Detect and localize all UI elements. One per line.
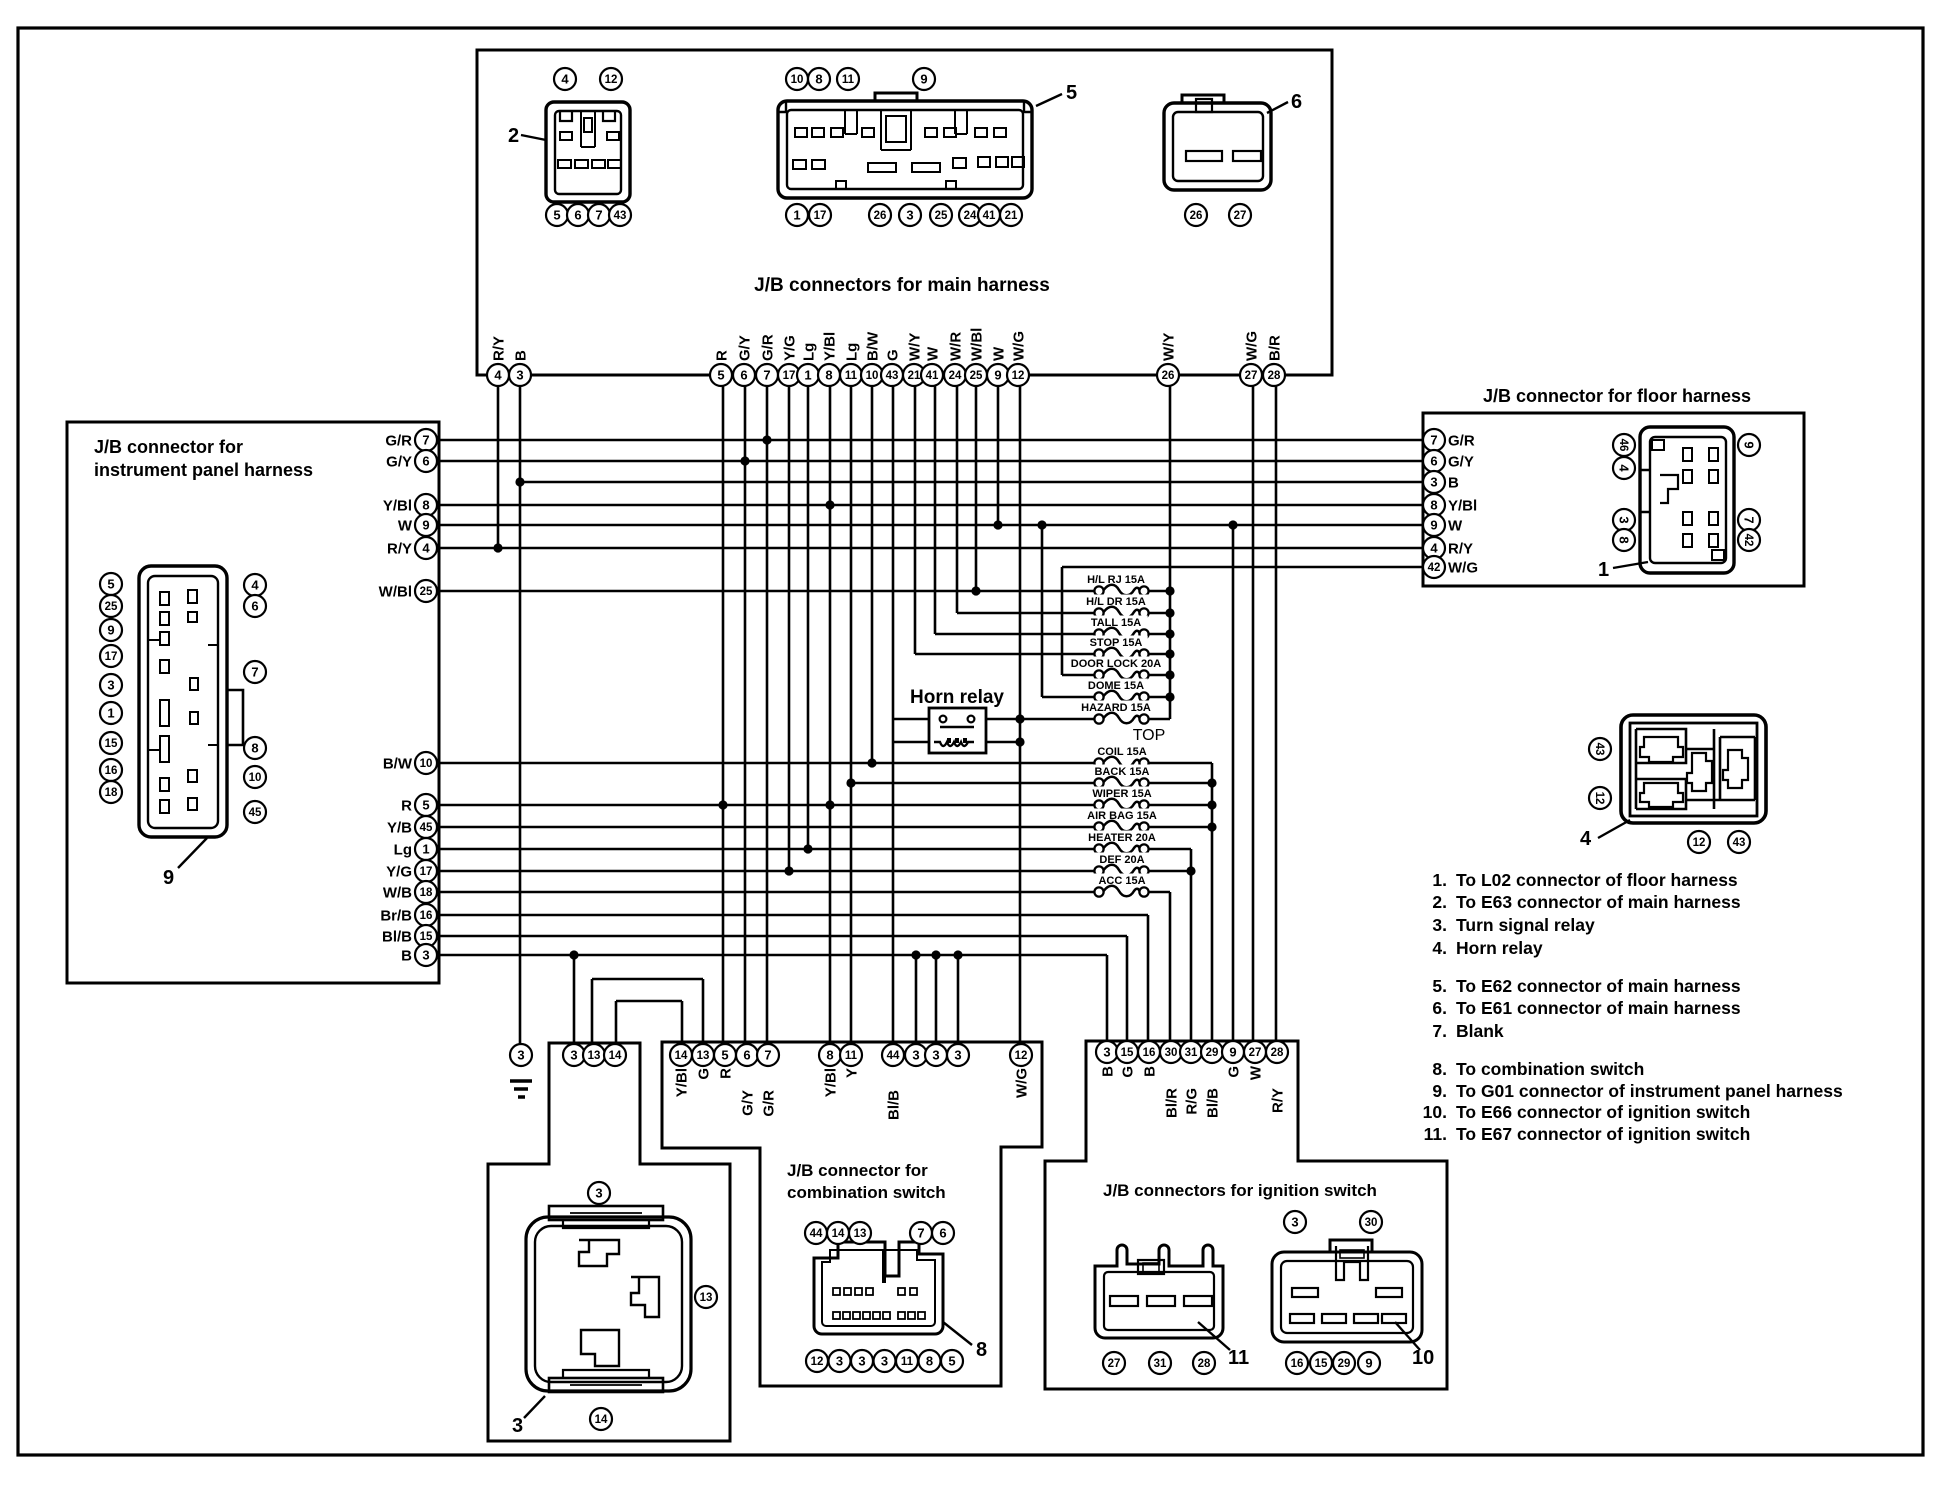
wire Lg to BACK fuse: [851, 782, 1099, 785]
pin 6 above connector 8: [932, 1222, 954, 1244]
svg-text:TOP: TOP: [1133, 727, 1166, 744]
wire W row: [437, 524, 1424, 527]
svg-text:To E67 connector of ignition s: To E67 connector of ignition switch: [1456, 1124, 1750, 1144]
connector 9 pin 10 (right): [244, 766, 266, 788]
main box pin 28 (B/R): [1263, 335, 1285, 386]
svg-text:15: 15: [105, 738, 118, 750]
main box pin 8 (Y/Bl): [818, 332, 840, 386]
main box pin 43 (G): [881, 349, 903, 386]
wire Br/B row to ignition pin 16: [1147, 915, 1150, 1041]
pin 17 below connector 5: [809, 204, 831, 226]
fuse AIR BAG 15A: [1080, 809, 1163, 832]
svg-text:3: 3: [107, 678, 114, 693]
svg-text:12: 12: [1693, 837, 1706, 849]
svg-text:W/B: W/B: [383, 885, 412, 902]
connector 9 pin 4 (right): [244, 574, 266, 596]
svg-text:3: 3: [517, 1048, 524, 1063]
svg-text:Lg: Lg: [843, 343, 860, 361]
svg-text:7: 7: [764, 1048, 771, 1063]
floor harness pin 7 (G/R): [1423, 429, 1475, 451]
wire B row to combination pin 3 (b): [935, 955, 938, 1044]
label 10 leader: [1395, 1322, 1434, 1369]
J/B ignition switch box: [1045, 1041, 1447, 1389]
main box pin 7 (G/R): [756, 334, 778, 386]
wire TALL fuse output: [1144, 633, 1170, 636]
svg-text:24: 24: [949, 370, 962, 382]
junction at (808,849): [803, 844, 812, 853]
main box pin 27 (W/G): [1240, 331, 1262, 386]
svg-text:3.: 3.: [1432, 915, 1447, 935]
svg-text:7.: 7.: [1432, 1021, 1447, 1041]
svg-text:11: 11: [1228, 1347, 1249, 1369]
wire ACC fuse output: [1144, 891, 1170, 894]
svg-text:9.: 9.: [1432, 1081, 1447, 1101]
junction at (1212,783): [1207, 778, 1216, 787]
instrument panel pin 18 (W/B): [383, 881, 437, 903]
instrument panel pin 10 (B/W): [383, 752, 437, 774]
connector 9 pin 9 (left): [100, 619, 122, 641]
ignition box pin 31 (R/G): [1180, 1041, 1202, 1115]
svg-text:27: 27: [1245, 370, 1258, 382]
svg-text:7: 7: [1741, 516, 1756, 523]
svg-text:16: 16: [1143, 1047, 1156, 1059]
svg-text:2.: 2.: [1432, 892, 1447, 912]
fuse HEATER 20A: [1087, 831, 1157, 854]
svg-text:13: 13: [697, 1050, 710, 1062]
wire Bl/B row: [437, 935, 1127, 938]
svg-text:Lg: Lg: [394, 842, 412, 859]
svg-text:B: B: [1100, 1066, 1117, 1077]
connector 1 pin 4: [1613, 457, 1635, 479]
svg-text:1: 1: [1598, 559, 1609, 581]
svg-text:16: 16: [420, 910, 433, 922]
title: J/B connectors for main harness: [754, 275, 1050, 296]
wire turn-signal 13 jog: [592, 978, 703, 981]
combination box pin 3: [905, 1044, 927, 1066]
svg-text:43: 43: [886, 370, 899, 382]
svg-text:DOME 15A: DOME 15A: [1088, 680, 1144, 692]
wire to DOOR LOCK fuse: [1062, 674, 1099, 677]
instrument panel pin 6 (G/Y): [386, 450, 437, 472]
svg-text:4: 4: [494, 368, 502, 383]
wire horn relay coil right: [986, 741, 1020, 744]
wire BACK fuse output: [1144, 782, 1212, 785]
junction at (916,955): [911, 950, 920, 959]
svg-text:8: 8: [422, 498, 429, 513]
connector G01 (item 9) pictorial: [139, 566, 243, 837]
pin 11 above connector 5: [837, 68, 859, 90]
ignition box pin 15 (G): [1116, 1041, 1138, 1078]
svg-text:R: R: [718, 1068, 735, 1079]
connector 1 pin 46: [1613, 434, 1635, 456]
connector 9 pin 15 (left): [100, 732, 122, 754]
junction at (1233,525): [1228, 520, 1237, 529]
svg-text:5: 5: [717, 368, 724, 383]
svg-text:AIR BAG 15A: AIR BAG 15A: [1087, 810, 1157, 822]
pin 9 above connector 5: [913, 68, 935, 90]
junction at (723,805): [718, 800, 727, 809]
svg-text:B: B: [1142, 1066, 1159, 1077]
instrument panel pin 25 (W/Bl): [379, 580, 437, 602]
svg-text:3: 3: [1103, 1045, 1110, 1060]
junction at (1170,634): [1165, 629, 1174, 638]
ignition box pin 30 (Bl/R): [1160, 1041, 1182, 1118]
instrument panel pin 7 (G/R): [385, 429, 437, 451]
svg-text:14: 14: [595, 1414, 608, 1426]
wire to combination pin 14: [681, 1001, 684, 1044]
svg-text:14: 14: [675, 1050, 688, 1062]
svg-text:W/G: W/G: [1448, 560, 1478, 577]
svg-text:4: 4: [251, 578, 259, 593]
svg-text:combination switch: combination switch: [787, 1183, 946, 1202]
svg-text:W/Bl: W/Bl: [379, 584, 412, 601]
pin 26 below connector 5: [869, 204, 891, 226]
pin 29 below connector 10: [1333, 1352, 1355, 1374]
junction at (1191,871): [1186, 866, 1195, 875]
wire pin 25 (W/Bl) down: [975, 386, 978, 591]
svg-text:G/R: G/R: [385, 433, 412, 450]
J/B main harness box: [477, 50, 1332, 375]
label 4 leader: [1580, 820, 1630, 850]
instrument panel pin 45 (Y/B): [387, 816, 437, 838]
ignition box pin 16 (B): [1138, 1041, 1160, 1077]
pin 27 below connector 11: [1103, 1352, 1125, 1374]
svg-text:46: 46: [1617, 439, 1629, 452]
combination box pin 13 (G): [692, 1044, 714, 1080]
svg-text:12: 12: [1015, 1050, 1028, 1062]
svg-text:5: 5: [721, 1048, 728, 1063]
svg-text:6: 6: [1291, 91, 1302, 113]
svg-text:10: 10: [866, 370, 879, 382]
junction at (1170,613): [1165, 608, 1174, 617]
svg-text:R: R: [401, 798, 412, 815]
svg-text:H/L RJ 15A: H/L RJ 15A: [1087, 574, 1145, 586]
junction at (574,955): [569, 950, 578, 959]
main box pin 24 (W/R): [944, 332, 966, 386]
pin 44 above connector 8: [805, 1222, 827, 1244]
wire pin 7 (G/R) to combination pin 7: [766, 386, 769, 1044]
svg-text:12: 12: [605, 74, 618, 86]
svg-text:Y/Bl: Y/Bl: [674, 1068, 691, 1097]
pin 16 below connector 10: [1286, 1352, 1308, 1374]
svg-text:G/Y: G/Y: [736, 335, 753, 361]
svg-text:43: 43: [1733, 837, 1746, 849]
floor harness pin 3 (B): [1423, 471, 1459, 493]
fuse DOME 15A: [1084, 679, 1148, 702]
fuse BACK 15A: [1090, 765, 1153, 788]
svg-text:R/Y: R/Y: [490, 336, 507, 361]
instrument panel pin 5 (R): [401, 794, 437, 816]
svg-text:Y/G: Y/G: [781, 335, 798, 361]
wire pin 12 (W/G) to combination pin 12: [1019, 386, 1022, 1044]
svg-text:1: 1: [804, 368, 811, 383]
svg-text:9: 9: [994, 368, 1001, 383]
label 5 leader: [1036, 82, 1077, 106]
wire horn relay coil to combination pin 44: [892, 725, 895, 1044]
svg-text:26: 26: [1190, 210, 1203, 222]
pin 14 above connector 8: [827, 1222, 849, 1244]
junction at (958,955): [953, 950, 962, 959]
svg-text:10: 10: [249, 772, 262, 784]
svg-text:11: 11: [845, 370, 858, 382]
svg-text:11: 11: [842, 74, 855, 86]
svg-text:TALL 15A: TALL 15A: [1091, 617, 1141, 629]
connector E63 (item 2) pictorial: [546, 102, 630, 202]
svg-text:HAZARD 15A: HAZARD 15A: [1081, 702, 1151, 714]
connector E61 (item 6) pictorial: [1164, 95, 1271, 190]
svg-text:COIL 15A: COIL 15A: [1097, 746, 1146, 758]
main box pin 17 (Y/G): [778, 335, 800, 386]
svg-text:10: 10: [791, 74, 804, 86]
svg-text:Y/B: Y/B: [387, 820, 412, 837]
svg-text:7: 7: [1430, 433, 1437, 448]
junction at (830,805): [825, 800, 834, 809]
svg-text:28: 28: [1271, 1047, 1284, 1059]
fuse H/L RJ 15A: [1081, 573, 1151, 596]
svg-text:Bl/B: Bl/B: [1205, 1088, 1222, 1118]
svg-text:3: 3: [1430, 475, 1437, 490]
svg-text:8: 8: [815, 72, 822, 87]
svg-text:To E61 connector of main harne: To E61 connector of main harness: [1456, 998, 1741, 1018]
svg-text:B/W: B/W: [864, 331, 881, 361]
svg-text:G/Y: G/Y: [386, 454, 412, 471]
main box pin 12 (W/G): [1007, 331, 1029, 386]
fuse WIPER 15A: [1087, 787, 1157, 810]
svg-text:8: 8: [976, 1339, 987, 1361]
svg-text:BACK 15A: BACK 15A: [1094, 766, 1149, 778]
svg-text:To E66 connector of ignition s: To E66 connector of ignition switch: [1456, 1102, 1750, 1122]
turn-signal box pin 3: [563, 1044, 585, 1066]
pin 5 below connector 8: [941, 1350, 963, 1372]
wire pin 26 (W/Y) fuse collector: [1169, 386, 1172, 719]
svg-text:42: 42: [1428, 562, 1441, 574]
connector E62 (item 5) pictorial: [778, 93, 1032, 198]
svg-text:Y/Bl: Y/Bl: [383, 498, 412, 515]
svg-text:11: 11: [845, 1050, 858, 1062]
floor harness pin 6 (G/Y): [1423, 450, 1474, 472]
pin 6 below connector 2: [567, 204, 589, 226]
svg-text:14: 14: [609, 1050, 622, 1062]
turn-signal box pin 14: [604, 1044, 626, 1066]
svg-text:W/G: W/G: [1243, 331, 1260, 361]
svg-text:W/R: W/R: [947, 332, 964, 361]
svg-text:Turn signal relay: Turn signal relay: [1456, 915, 1595, 935]
fuse H/L DR 15A: [1081, 595, 1151, 618]
wire pin 21 (W/Y) down to STOP: [914, 386, 917, 654]
wire to DOME fuse: [1042, 696, 1099, 699]
pin 3 above connector 10: [1284, 1211, 1306, 1233]
svg-text:1: 1: [107, 706, 114, 721]
svg-text:B/W: B/W: [383, 756, 413, 773]
pin 1 below connector 5: [786, 204, 808, 226]
fuse DOOR LOCK 20A: [1068, 657, 1164, 680]
pin 41 below connector 5: [978, 204, 1000, 226]
wire B row to turn-signal pin 3: [573, 955, 576, 1044]
svg-text:6: 6: [251, 599, 258, 614]
svg-text:5: 5: [1066, 82, 1077, 104]
wire turn-signal pin 14 up: [615, 1001, 618, 1044]
combination box pin 3: [947, 1044, 969, 1066]
pin 10 above connector 5: [786, 68, 808, 90]
junction at (1020,719): [1015, 714, 1024, 723]
pin 3 below connector 5: [899, 204, 921, 226]
wire DEF fuse output: [1144, 870, 1191, 873]
svg-text:G: G: [1226, 1066, 1243, 1078]
svg-text:8: 8: [825, 368, 832, 383]
ignition box pin 3 (B): [1096, 1041, 1118, 1077]
wire Bl/B row to ignition pin 15: [1126, 936, 1129, 1041]
label 8 leader: [943, 1322, 987, 1361]
wire B row to ignition pin 3: [1106, 955, 1109, 1041]
pin 3 above turn signal relay: [588, 1182, 610, 1204]
svg-text:W/Y: W/Y: [1160, 333, 1177, 361]
pin 26 below connector 6: [1185, 204, 1207, 226]
svg-text:J/B connector for: J/B connector for: [787, 1161, 928, 1180]
wire STOP fuse output: [1144, 653, 1170, 656]
svg-text:16: 16: [105, 765, 118, 777]
ignition box pin 29 (Bl/B): [1201, 1041, 1223, 1118]
svg-text:G: G: [1120, 1066, 1137, 1078]
wire DOOR LOCK fuse output: [1144, 674, 1170, 677]
svg-text:R/G: R/G: [1184, 1088, 1201, 1115]
svg-text:DEF 20A: DEF 20A: [1099, 854, 1144, 866]
svg-text:To combination switch: To combination switch: [1456, 1059, 1644, 1079]
wire pin 28 (B/R) to ignition pin 28: [1275, 386, 1278, 1041]
wire ACC output to ignition pin 30: [1169, 892, 1172, 1041]
svg-text:J/B connectors for main harnes: J/B connectors for main harness: [754, 275, 1050, 296]
svg-text:4.: 4.: [1432, 938, 1447, 958]
wire Y/Bl row: [437, 504, 1424, 507]
instrument panel pin 1 (Lg): [394, 838, 437, 860]
svg-text:14: 14: [832, 1228, 845, 1240]
svg-text:J/B connectors for ignition sw: J/B connectors for ignition switch: [1103, 1181, 1377, 1200]
svg-text:17: 17: [814, 210, 827, 222]
svg-text:B: B: [1448, 475, 1459, 492]
svg-text:2: 2: [508, 125, 519, 147]
instrument panel pin 16 (Br/B): [380, 904, 437, 926]
pin 8 below connector 8: [919, 1350, 941, 1372]
main box pin 6 (G/Y): [733, 335, 755, 386]
main box pin 26 (W/Y): [1157, 333, 1179, 386]
svg-text:5: 5: [948, 1354, 955, 1369]
svg-text:8: 8: [926, 1354, 933, 1369]
connector 1 pin 42: [1738, 529, 1760, 551]
junction at (520,482): [515, 477, 524, 486]
junction at (1212,827): [1207, 822, 1216, 831]
wire pin 41 (W) down to TALL: [934, 386, 937, 634]
svg-text:Y/Bl: Y/Bl: [823, 1068, 840, 1097]
fuse STOP 15A: [1084, 636, 1148, 659]
svg-text:1: 1: [793, 208, 800, 223]
connector 1 pin 8: [1613, 529, 1635, 551]
floor harness pin 42 (W/G): [1423, 556, 1478, 578]
svg-text:7: 7: [763, 368, 770, 383]
J/B combination switch box: [662, 1042, 1042, 1386]
svg-text:G/R: G/R: [759, 334, 776, 361]
svg-text:5: 5: [553, 208, 560, 223]
svg-text:18: 18: [105, 787, 118, 799]
svg-text:G/R: G/R: [1448, 433, 1475, 450]
svg-text:13: 13: [588, 1050, 601, 1062]
wire G to horn relay: [893, 718, 929, 721]
combination box pin 7 (G/R): [757, 1044, 779, 1117]
wire COIL fuse output: [1144, 762, 1212, 765]
svg-text:1.: 1.: [1432, 870, 1447, 890]
svg-text:3: 3: [932, 1048, 939, 1063]
combination box pin 14 (Y/Bl): [670, 1044, 692, 1097]
svg-text:9: 9: [1430, 518, 1437, 533]
svg-text:J/B connector for: J/B connector for: [94, 437, 243, 457]
wire W/G row: [1062, 566, 1424, 569]
ignition box pin 27 (W): [1244, 1041, 1266, 1080]
svg-text:10.: 10.: [1423, 1102, 1447, 1122]
junction at (1212,805): [1207, 800, 1216, 809]
title: J/B connector for floor harness: [1483, 386, 1751, 406]
svg-text:3: 3: [881, 1354, 888, 1369]
floor harness pin 4 (R/Y): [1423, 537, 1473, 559]
J/B instrument panel box: [67, 422, 439, 983]
main box pin 21 (W/Y): [903, 333, 925, 386]
pin 14 below turn signal relay: [590, 1408, 612, 1430]
connector 9 pin 1 (left): [100, 702, 122, 724]
wire from pin 4 (R/Y) down: [497, 386, 500, 548]
svg-text:45: 45: [249, 807, 262, 819]
wire horn relay coil left: [893, 741, 929, 744]
svg-text:To E62 connector of main harne: To E62 connector of main harness: [1456, 976, 1741, 996]
svg-text:3: 3: [1616, 516, 1631, 523]
wire pin 9 (W) down: [997, 386, 1000, 525]
label Horn relay: [910, 687, 1004, 708]
title: J/B connector for combination switch: [787, 1161, 946, 1202]
junction at (789,871): [784, 866, 793, 875]
pin 13 right of turn signal relay: [695, 1286, 717, 1308]
svg-text:3: 3: [906, 208, 913, 223]
connector 4 pin 12: [1688, 831, 1710, 853]
svg-text:9: 9: [1229, 1045, 1236, 1060]
pin 31 below connector 11: [1149, 1352, 1171, 1374]
svg-text:WIPER 15A: WIPER 15A: [1092, 788, 1151, 800]
wire G/Y row: [437, 460, 1424, 463]
wire turn-signal pin 13 up: [591, 979, 594, 1044]
junction at (1170,675): [1165, 670, 1174, 679]
pin 12 below connector 8: [806, 1350, 828, 1372]
wire R row to WIPER fuse: [437, 804, 1099, 807]
connector 9 pin 18 (left): [100, 781, 122, 803]
junction at (976,591): [971, 586, 980, 595]
svg-text:8: 8: [1616, 536, 1631, 543]
svg-text:B: B: [401, 948, 412, 965]
combination box pin 5 (R): [714, 1044, 736, 1079]
svg-text:1: 1: [422, 842, 429, 857]
title: J/B connectors for ignition switch: [1103, 1181, 1377, 1200]
wire W/Bl row to H/L RJ fuse: [437, 590, 1099, 593]
wire HEATER/DEF output to ignition pin 31: [1190, 849, 1193, 1041]
svg-text:3: 3: [512, 1415, 523, 1437]
svg-text:H/L DR 15A: H/L DR 15A: [1086, 596, 1146, 608]
svg-text:W/G: W/G: [1010, 331, 1027, 361]
wire B row to combination pin 3 (a): [915, 955, 918, 1044]
svg-text:42: 42: [1742, 534, 1754, 547]
wire pin 24 (W/R) down to H/L DR: [956, 386, 959, 613]
svg-text:Lg: Lg: [800, 343, 817, 361]
title: J/B connector for instrument panel harness: [94, 437, 313, 480]
svg-text:4: 4: [1580, 828, 1592, 850]
svg-text:To G01 connector of instrument: To G01 connector of instrument panel har…: [1456, 1081, 1843, 1101]
label 11 leader: [1198, 1322, 1249, 1369]
pin 3 below connector 8: [851, 1350, 873, 1372]
combination box pin 44 (Bl/B): [882, 1044, 904, 1120]
svg-text:W/G: W/G: [1014, 1068, 1031, 1098]
